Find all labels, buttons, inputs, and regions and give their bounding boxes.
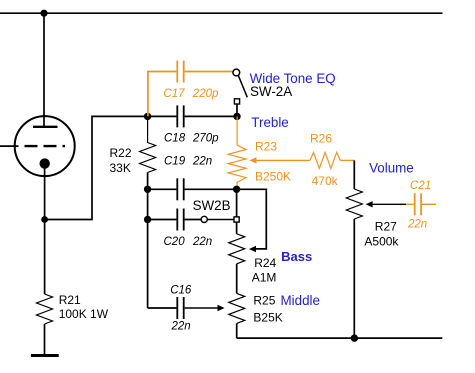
potentiometer R25 wiper arrow: [218, 305, 225, 311]
wire cathode branch to C18 node: [45, 116, 148, 219]
svg-text:B250K: B250K: [255, 170, 291, 184]
svg-text:C20: C20: [164, 236, 186, 248]
wire R26 right to R27: [340, 159, 354, 161]
svg-text:220p: 220p: [192, 88, 219, 100]
vacuum tube V1 plate: [33, 126, 58, 128]
wire C17 left loop: [148, 72, 177, 117]
capacitor C20: [177, 209, 183, 231]
switch SW-2A lever: [238, 76, 247, 98]
wire C17 right to switch: [185, 71, 233, 73]
potentiometer R25: [229, 293, 245, 323]
svg-text:470k: 470k: [312, 174, 339, 188]
potentiometer R23 wiper arrow: [250, 157, 257, 163]
wire C20 to SW2B pole: [185, 219, 202, 221]
ground: [31, 354, 59, 357]
svg-text:R27: R27: [375, 220, 397, 234]
svg-text:SW2B: SW2B: [193, 198, 231, 213]
svg-text:Middle: Middle: [281, 293, 320, 308]
svg-text:A1M: A1M: [252, 270, 277, 284]
vacuum tube V1 envelope: [15, 116, 75, 176]
svg-text:100K 1W: 100K 1W: [59, 307, 109, 321]
svg-text:Bass: Bass: [281, 249, 312, 264]
wire R25 bottom lead: [236, 323, 238, 338]
capacitor C18: [177, 105, 183, 127]
svg-text:R24: R24: [254, 256, 276, 270]
svg-text:R26: R26: [310, 131, 332, 145]
wire R27 wiper to C21: [372, 203, 406, 205]
svg-text:R22: R22: [110, 146, 132, 160]
wire grid input: [0, 145, 19, 147]
svg-text:A500k: A500k: [364, 235, 399, 249]
wire R24 to R25: [236, 264, 238, 294]
node plate junction: [40, 10, 47, 17]
svg-text:22n: 22n: [171, 321, 191, 333]
svg-text:C16: C16: [170, 285, 192, 297]
wire R22 bottom bus: [147, 173, 149, 309]
wire C21 right lead: [422, 203, 436, 205]
wire C18 left: [148, 115, 177, 117]
node R23 bottom junction: [233, 186, 240, 193]
wire top supply rail: [0, 12, 443, 14]
switch SW2B throw terminal: [234, 217, 239, 222]
wire C20 left: [148, 219, 177, 221]
svg-text:22n: 22n: [192, 156, 212, 168]
wire bottom rail: [237, 337, 443, 339]
vacuum tube V1 cathode: [40, 158, 50, 168]
wire R24 wiper loop to R23 bottom: [237, 189, 266, 249]
wire SW-2A to node: [236, 104, 238, 116]
svg-text:C18: C18: [164, 133, 186, 145]
svg-text:C19: C19: [164, 156, 186, 168]
node C20 left junction: [144, 216, 151, 223]
switch SW-2A throw terminal: [234, 99, 239, 104]
wire C19 left: [148, 188, 177, 190]
capacitor C21: [415, 193, 421, 215]
capacitor C19: [177, 178, 183, 200]
wire plate vertical: [43, 13, 45, 127]
switch SW2B lever: [207, 219, 234, 221]
svg-text:B25K: B25K: [253, 310, 282, 324]
resistor R26: [310, 152, 340, 168]
svg-text:R21: R21: [59, 293, 81, 307]
potentiometer R24: [229, 234, 245, 264]
wire R23 wiper to R26: [256, 159, 311, 161]
svg-text:R25: R25: [253, 293, 275, 307]
svg-text:33K: 33K: [110, 161, 131, 175]
capacitor C16: [177, 297, 183, 319]
node C19 left junction: [144, 186, 151, 193]
potentiometer R27: [346, 189, 362, 219]
node bottom junction: [351, 334, 358, 341]
wire R27 bottom lead: [353, 219, 355, 338]
switch SW2B pole terminal: [201, 216, 207, 222]
svg-text:SW-2A: SW-2A: [250, 84, 292, 99]
wire SW2B down to R24: [236, 222, 238, 234]
resistor R21: [37, 294, 53, 324]
wire C21 left lead: [406, 203, 414, 205]
svg-text:22n: 22n: [192, 236, 212, 248]
node C18 left junction: [144, 113, 151, 120]
wire C16 to R25 wiper: [185, 307, 218, 309]
resistor R22: [140, 116, 156, 172]
wire cathode down: [44, 167, 46, 294]
wire R21 to ground: [44, 324, 46, 355]
vacuum tube V1 grid: [25, 145, 66, 147]
svg-text:270p: 270p: [192, 133, 219, 145]
node C18 right junction: [233, 113, 240, 120]
wire C16 bus corner: [148, 307, 177, 309]
node cathode junction: [41, 216, 48, 223]
wire C18 right: [185, 115, 237, 117]
switch SW-2A pole terminal: [233, 69, 240, 76]
potentiometer R23: [228, 116, 246, 189]
svg-text:22n: 22n: [407, 219, 427, 231]
svg-text:C21: C21: [410, 180, 431, 192]
wire C19 right: [185, 188, 237, 190]
wire R27 top lead: [353, 160, 355, 189]
svg-text:Treble: Treble: [251, 115, 288, 130]
wire SW2B up to node: [236, 189, 238, 217]
svg-text:Volume: Volume: [369, 161, 414, 176]
potentiometer R24 wiper arrow: [249, 246, 256, 252]
potentiometer R27 wiper arrow: [366, 201, 373, 207]
svg-text:R23: R23: [255, 139, 277, 153]
svg-text:C17: C17: [163, 88, 185, 100]
capacitor C17: [177, 61, 183, 83]
